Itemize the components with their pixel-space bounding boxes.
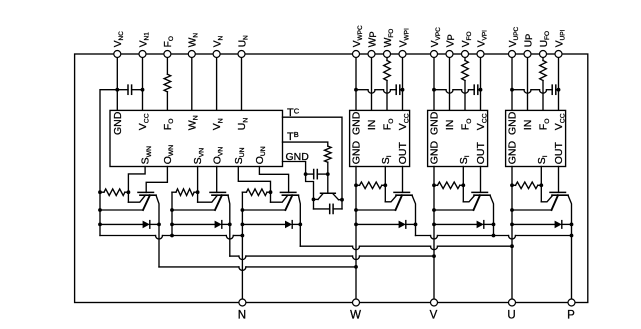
svg-text:OUT: OUT xyxy=(397,142,409,165)
svg-text:UP: UP xyxy=(523,34,534,48)
svg-text:GND: GND xyxy=(112,111,124,135)
svg-text:GND: GND xyxy=(429,111,441,135)
svg-text:IN: IN xyxy=(522,120,534,131)
svg-text:U: U xyxy=(507,310,515,322)
svg-text:W: W xyxy=(350,310,361,322)
svg-text:IN: IN xyxy=(444,120,456,131)
svg-text:WP: WP xyxy=(367,31,378,47)
svg-text:IN: IN xyxy=(366,120,378,131)
svg-text:OUT: OUT xyxy=(475,142,487,165)
svg-text:N: N xyxy=(238,310,246,322)
svg-text:OUT: OUT xyxy=(553,142,565,165)
svg-text:GND: GND xyxy=(429,141,441,165)
svg-text:GND: GND xyxy=(507,141,519,165)
svg-text:GND: GND xyxy=(507,111,519,135)
svg-text:V: V xyxy=(430,310,438,322)
svg-text:GND: GND xyxy=(351,141,363,165)
svg-text:P: P xyxy=(567,310,575,322)
svg-text:VP: VP xyxy=(445,34,456,47)
svg-text:GND: GND xyxy=(351,111,363,135)
